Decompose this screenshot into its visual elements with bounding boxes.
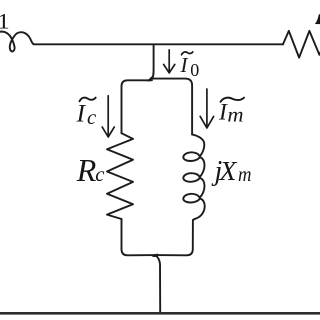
svg-text:0: 0 (190, 60, 199, 80)
resistor Rc (left branch zigzag) (107, 133, 133, 219)
wire top horizontal (34, 43, 284, 45)
svg-text:c: c (95, 163, 104, 186)
svg-text:m: m (227, 105, 243, 126)
svg-text:R: R (76, 152, 97, 188)
arrow Ic (102, 96, 114, 137)
junction tick top (147, 76, 153, 82)
svg-text:I: I (180, 53, 189, 77)
wire bottom stub to ground line (155, 255, 160, 312)
label Im tilde (wide) (221, 98, 245, 102)
resistor R1 (top-right zigzag) (283, 31, 320, 58)
arrow I0 (164, 50, 175, 73)
svg-text:m: m (238, 165, 252, 186)
svg-text:1: 1 (0, 10, 10, 34)
wire top bus left (122, 80, 152, 133)
svg-text:I: I (76, 98, 87, 127)
wire left branch bottom + bus left half (122, 219, 156, 255)
wire top bus right (152, 79, 192, 135)
label I0 tilde (182, 52, 193, 55)
label Ic tilde (80, 98, 96, 102)
wire vertical stub from top wire (149, 44, 154, 80)
wire bottom full-width line (0, 312, 320, 315)
junction tick bottom (152, 253, 159, 257)
inductor X1 (top-left coil) (0, 32, 34, 52)
wire right branch bottom + bus right half (156, 220, 193, 255)
label R fragment (top-right corner) (315, 14, 320, 24)
arrow Im (200, 89, 213, 128)
svg-text:c: c (87, 108, 97, 129)
svg-text:X: X (219, 156, 238, 186)
inductor jXm (right branch coil) (183, 134, 204, 220)
